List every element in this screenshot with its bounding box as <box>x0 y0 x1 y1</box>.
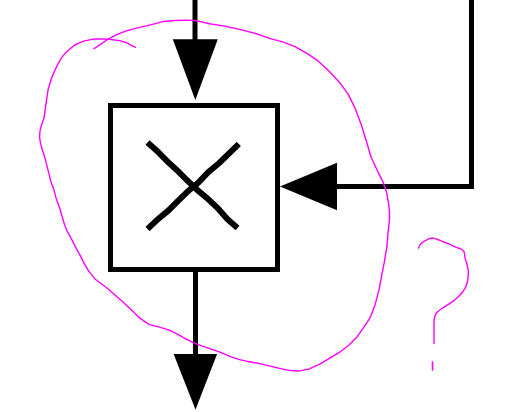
arrowhead: right input arrow pointing left into mixer <box>280 163 337 211</box>
annotation: magenta freehand loop circled around mixer (single overlapping stroke) <box>40 20 390 371</box>
mixer (multiplier) box <box>111 106 278 270</box>
wire: right input horizontal segment toward mixer <box>337 184 474 189</box>
arrowhead: output arrow pointing down <box>174 354 218 410</box>
annotation: magenta question mark dot dash <box>432 362 434 370</box>
mixer X symbol: slash diagonal <box>148 144 239 229</box>
mixer X symbol: backslash diagonal <box>148 143 238 229</box>
annotation: magenta freehand question mark hook <box>419 238 469 344</box>
wire: right input vertical segment from top edge <box>469 0 474 189</box>
wire: top input vertical segment into mixer <box>193 0 198 46</box>
arrowhead: top input arrow pointing down into mixer <box>173 39 218 100</box>
wire: output vertical segment below mixer <box>193 269 198 358</box>
